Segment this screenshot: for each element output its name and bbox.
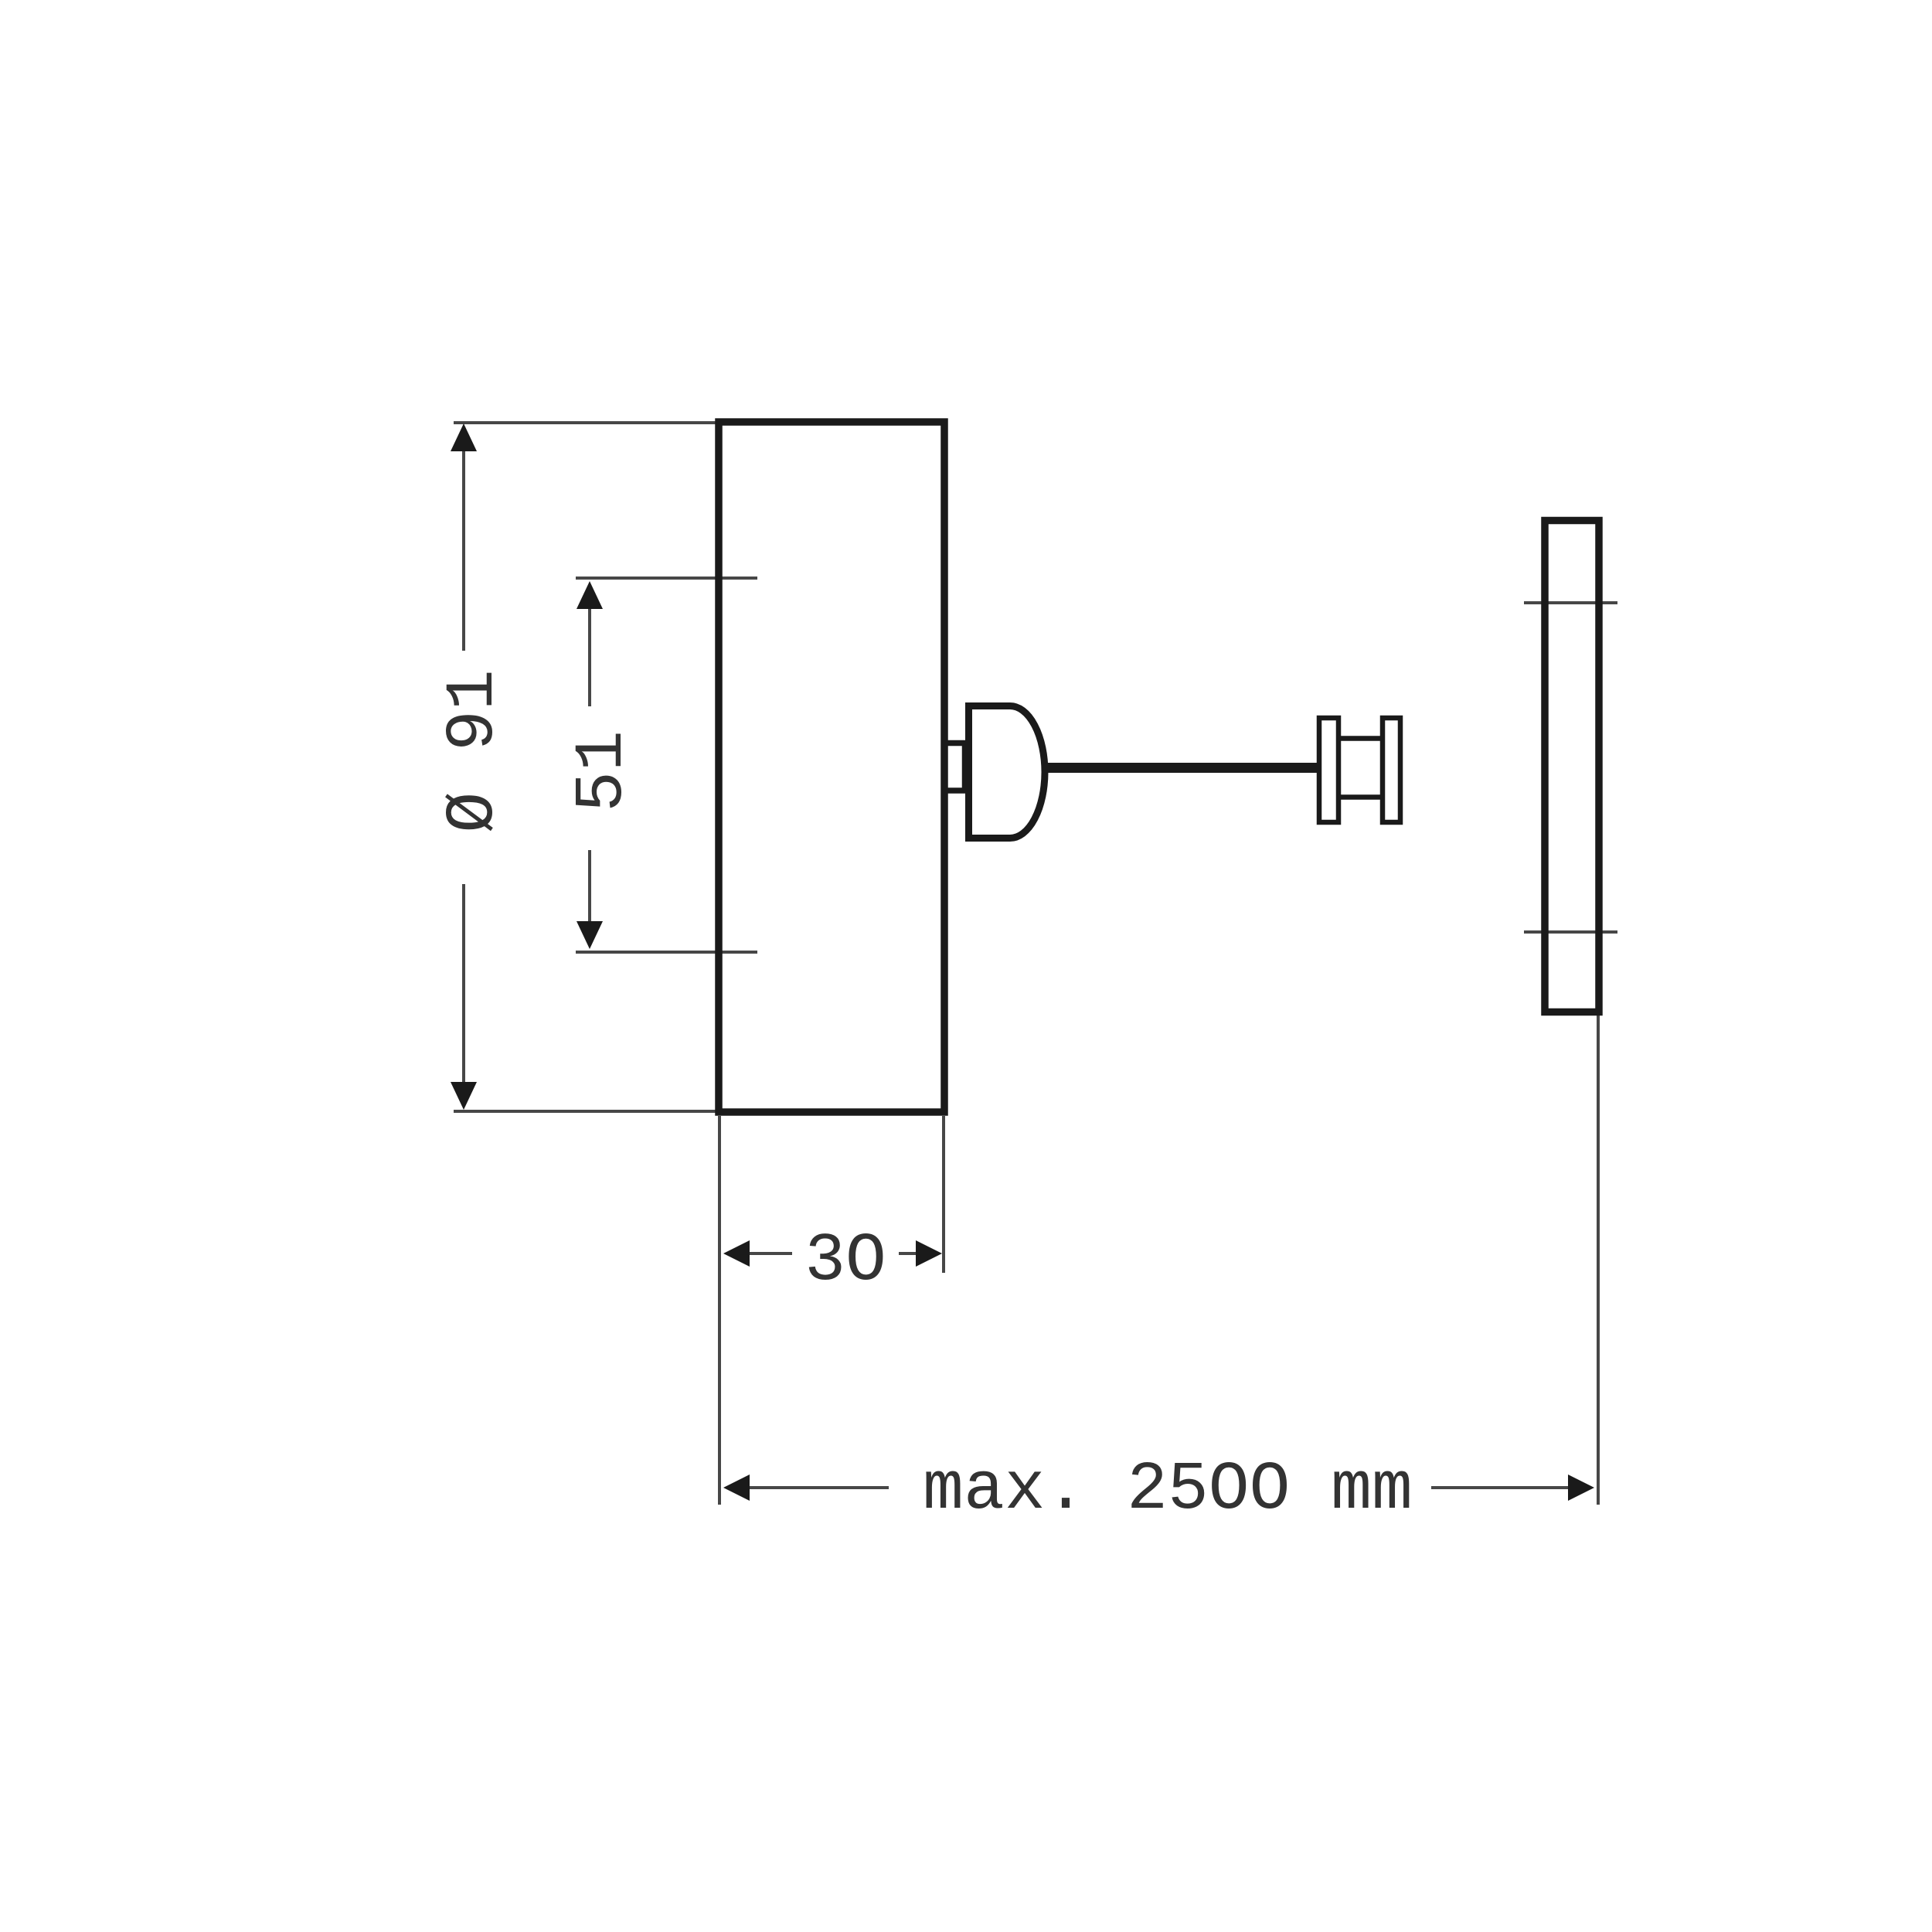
svg-text:max. 25OO mm: max. 25OO mm xyxy=(923,1452,1413,1529)
svg-text:3O: 3O xyxy=(804,1223,886,1300)
svg-text:Ø 91: Ø 91 xyxy=(436,669,512,832)
svg-text:51: 51 xyxy=(565,730,641,812)
